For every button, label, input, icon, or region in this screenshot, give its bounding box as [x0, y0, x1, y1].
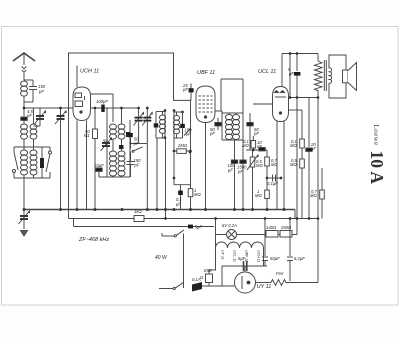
- svg-text:pF: pF: [38, 89, 44, 94]
- svg-text:pF: pF: [134, 163, 140, 168]
- svg-text:140Ω: 140Ω: [266, 225, 277, 230]
- svg-text:pF: pF: [253, 131, 259, 136]
- svg-text:40 W: 40 W: [155, 255, 168, 261]
- svg-text:UCL 11: UCL 11: [233, 250, 237, 262]
- svg-text:MΩ: MΩ: [256, 163, 263, 168]
- svg-text:E50: E50: [204, 268, 212, 273]
- svg-text:UCH 11: UCH 11: [257, 250, 261, 263]
- svg-text:pF: pF: [185, 132, 191, 137]
- svg-text:8,2µF: 8,2µF: [294, 256, 305, 261]
- svg-text:µF: µF: [311, 146, 316, 151]
- svg-text:6V 0,2A: 6V 0,2A: [222, 223, 237, 228]
- svg-text:UCH 11: UCH 11: [80, 69, 99, 75]
- svg-text:100pF: 100pF: [96, 99, 108, 104]
- svg-text:MΩ: MΩ: [290, 143, 297, 148]
- svg-text:MΩ: MΩ: [194, 192, 201, 197]
- svg-text:2MΩ: 2MΩ: [177, 143, 188, 148]
- svg-text:1kΩ: 1kΩ: [134, 209, 142, 214]
- svg-text:0,1A: 0,1A: [192, 277, 201, 282]
- svg-text:MΩ: MΩ: [242, 143, 249, 148]
- svg-text:ZF~468 kHz: ZF~468 kHz: [78, 237, 109, 243]
- svg-text:pF: pF: [133, 141, 139, 146]
- svg-text:5µF: 5µF: [195, 225, 203, 230]
- svg-text:UY 11: UY 11: [221, 250, 225, 260]
- svg-text:10µF: 10µF: [94, 163, 104, 168]
- svg-text:MΩ: MΩ: [290, 162, 297, 167]
- svg-text:pF: pF: [237, 169, 243, 174]
- svg-text:UBF 11: UBF 11: [197, 70, 215, 76]
- svg-text:µF: µF: [289, 71, 294, 76]
- svg-text:pF: pF: [26, 113, 32, 118]
- svg-text:UBF 11: UBF 11: [245, 250, 249, 262]
- svg-text:kΩ: kΩ: [84, 133, 90, 138]
- svg-text:UCL 11: UCL 11: [258, 69, 276, 75]
- svg-text:260Ω: 260Ω: [280, 225, 292, 230]
- svg-text:pF: pF: [209, 131, 215, 136]
- svg-text:MΩ: MΩ: [310, 193, 317, 198]
- svg-text:pF: pF: [182, 87, 188, 92]
- svg-text:UY 11: UY 11: [257, 284, 272, 290]
- svg-text:MΩ: MΩ: [255, 193, 262, 198]
- svg-text:5µ: 5µ: [103, 138, 108, 143]
- svg-text:µF: µF: [176, 202, 181, 207]
- svg-text:Loewe: Loewe: [372, 125, 380, 146]
- svg-text:50µF: 50µF: [270, 256, 280, 261]
- svg-text:0,1µF: 0,1µF: [267, 181, 278, 186]
- svg-text:10 A: 10 A: [367, 151, 387, 185]
- svg-text:µF: µF: [228, 168, 233, 173]
- svg-text:MΩ: MΩ: [271, 162, 278, 167]
- svg-text:nF: nF: [257, 144, 262, 149]
- svg-text:Ferr: Ferr: [276, 271, 284, 276]
